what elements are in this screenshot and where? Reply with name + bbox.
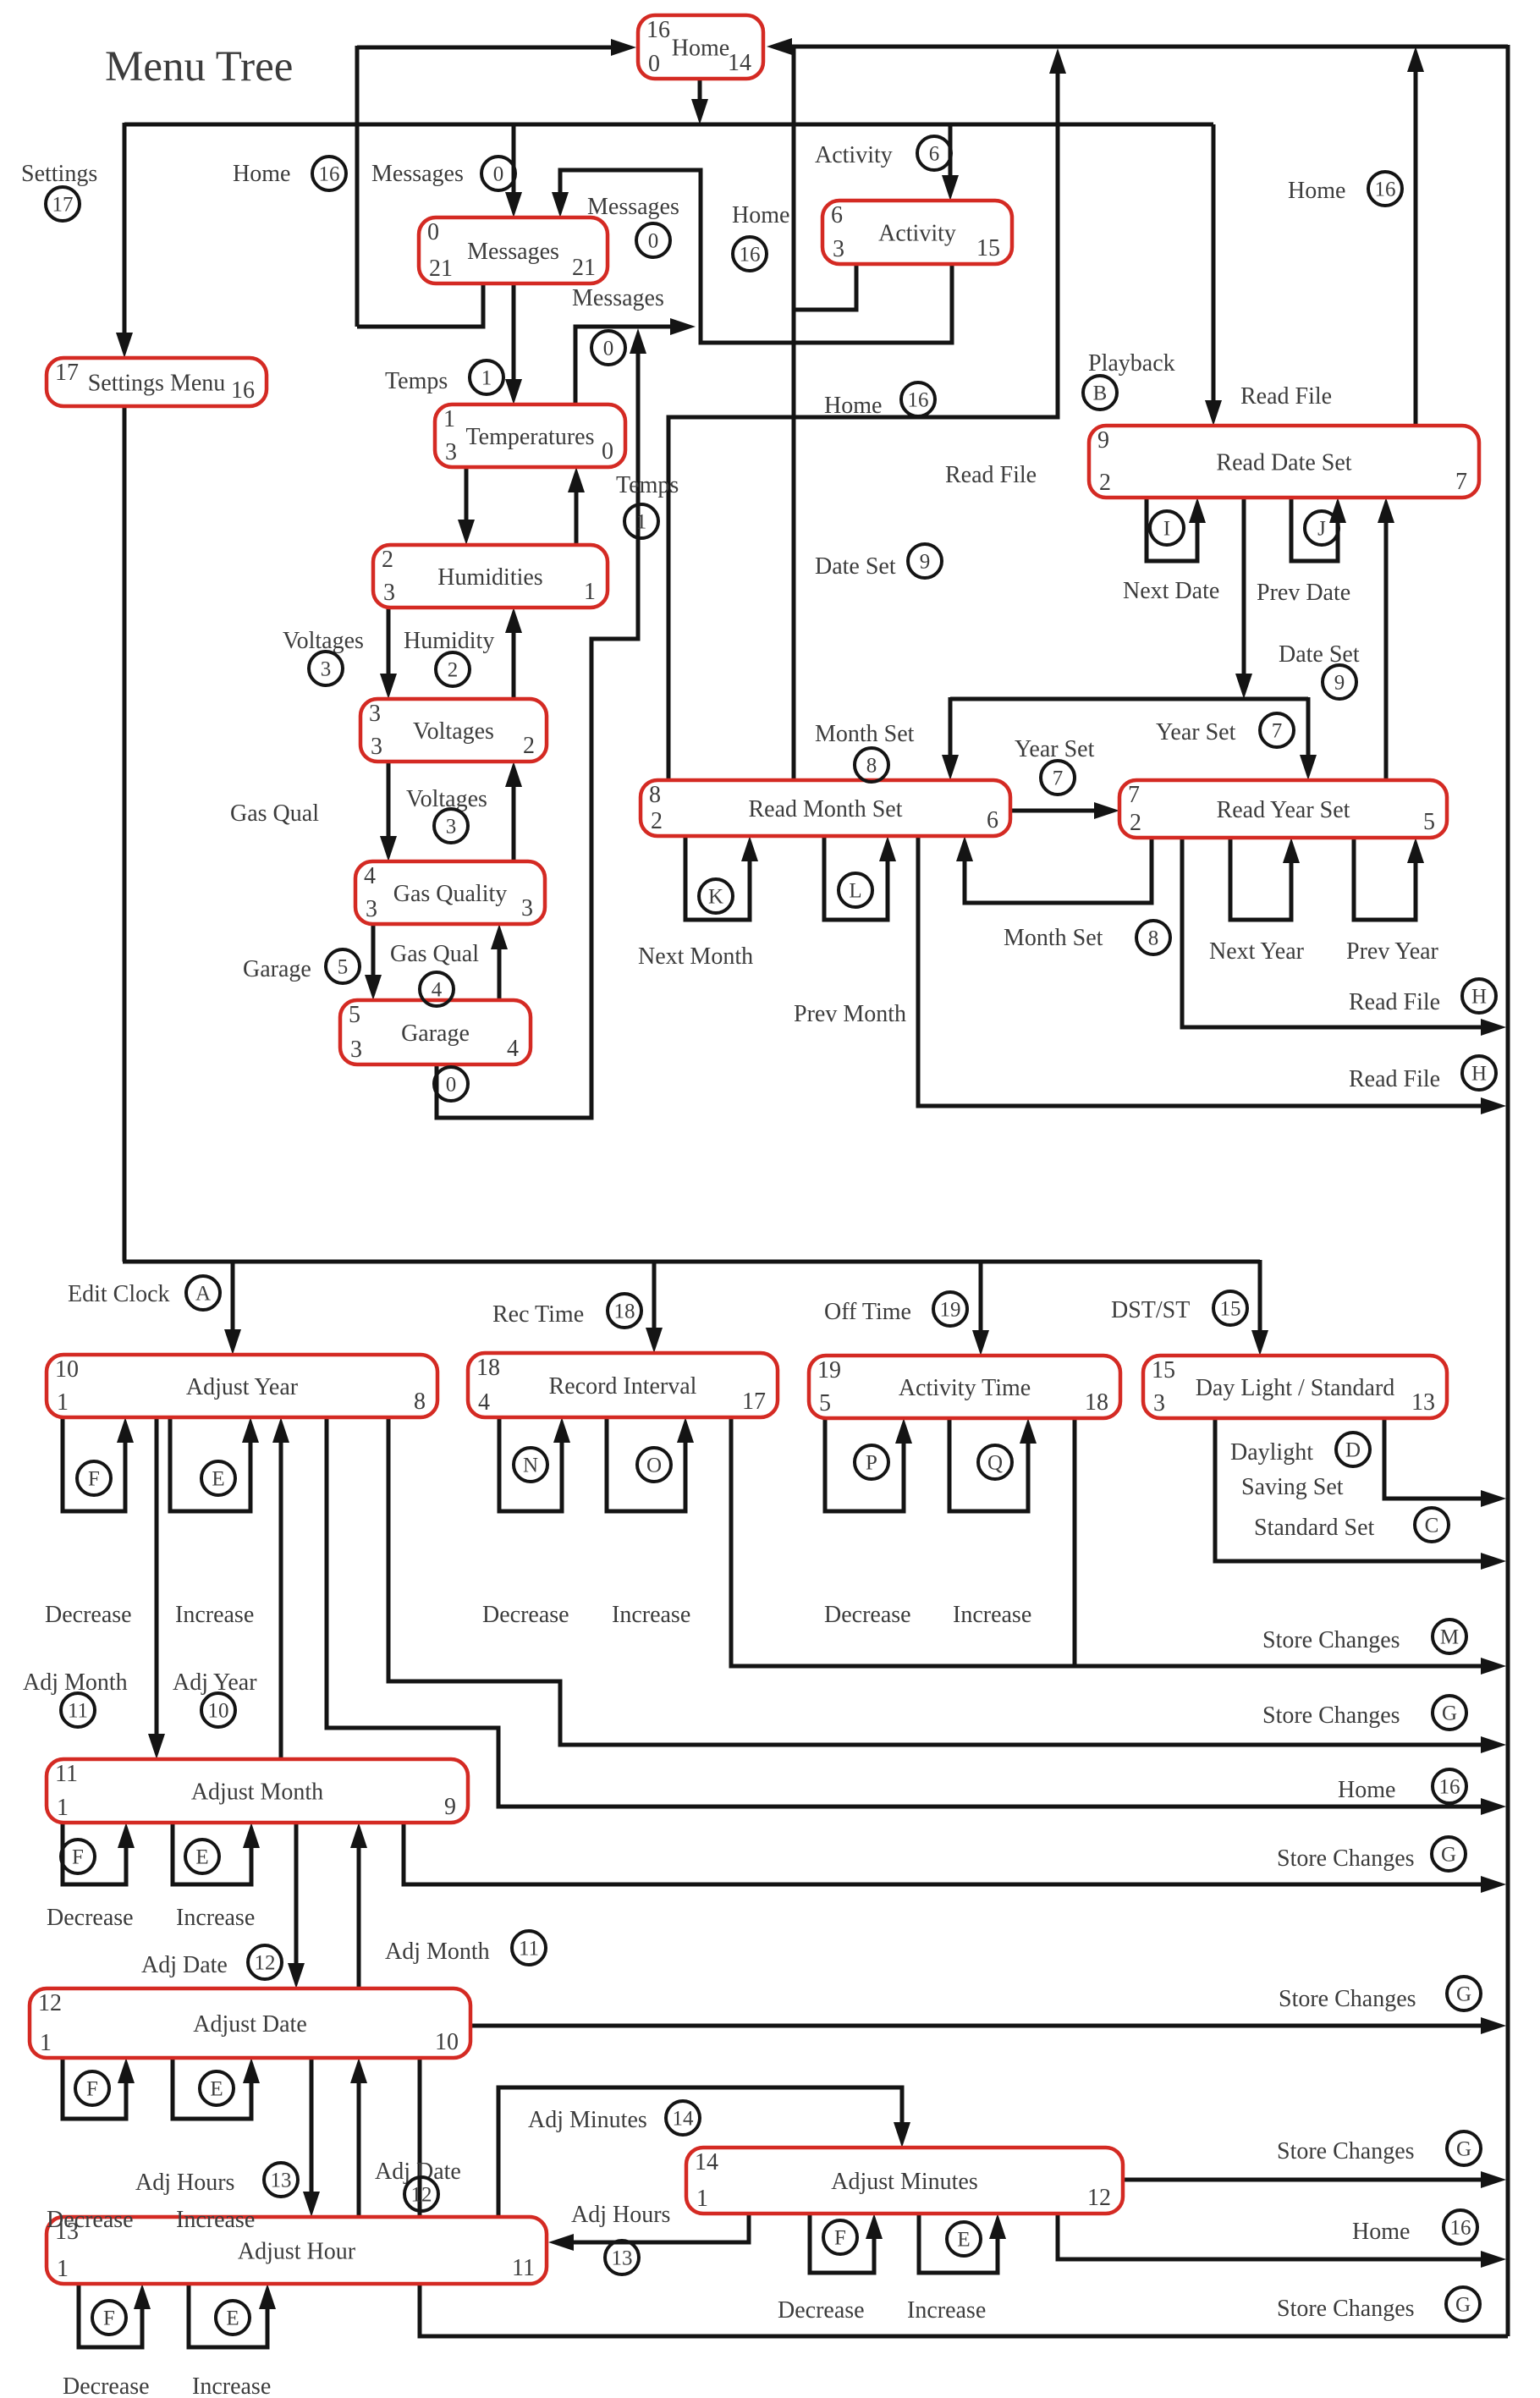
svg-text:Store Changes: Store Changes	[1262, 1627, 1400, 1653]
label: F circle adjust date	[75, 2071, 109, 2105]
svg-text:11: 11	[512, 2255, 535, 2281]
label: Adj Year 10	[173, 1669, 257, 1727]
svg-text:16: 16	[1375, 179, 1396, 201]
svg-text:17: 17	[742, 1389, 766, 1415]
label: Gas Qual 4	[390, 941, 479, 1006]
label: Date Set 9	[1279, 641, 1360, 699]
svg-text:3: 3	[383, 580, 395, 606]
wire: activity time Q loop	[949, 1418, 1037, 1511]
state box: Adjust Date	[30, 1988, 470, 2058]
label: E circle adjust date	[200, 2071, 234, 2105]
svg-text:Q: Q	[987, 1452, 1003, 1475]
svg-text:Adj Date: Adj Date	[375, 2159, 461, 2185]
wire: right edge vertical x1782	[1506, 45, 1510, 2336]
svg-text:Read File: Read File	[945, 462, 1037, 488]
label: Garage 0 exit	[434, 1067, 468, 1101]
wire: record interval O loop	[607, 1417, 694, 1511]
wire: store changes M line	[731, 1417, 1506, 1675]
wire: read date set drop x1434	[1205, 124, 1222, 426]
wire: adj hours return into adjust hour	[548, 2214, 749, 2251]
svg-text:12: 12	[38, 1990, 62, 2016]
svg-text:8: 8	[414, 1389, 426, 1415]
svg-text:A: A	[195, 1283, 211, 1306]
label: I circle	[1150, 511, 1184, 545]
svg-text:10: 10	[55, 1356, 79, 1383]
state box: Home	[638, 15, 763, 79]
svg-text:E: E	[226, 2307, 239, 2330]
svg-text:16: 16	[908, 389, 929, 412]
svg-text:0: 0	[602, 438, 613, 465]
wire: adj hours drop x368	[303, 2058, 320, 2217]
state box: Read Date Set	[1089, 426, 1479, 498]
state box: Record Interval	[468, 1353, 778, 1417]
label: Read File left of RDS	[945, 462, 1037, 488]
svg-text:N: N	[523, 1455, 538, 1477]
wire: adjust year E loop	[170, 1417, 259, 1511]
label: Store Changes G5	[1277, 2287, 1480, 2322]
svg-text:F: F	[103, 2307, 115, 2330]
svg-text:9: 9	[1097, 427, 1109, 454]
label: Daylight D	[1230, 1433, 1370, 1466]
svg-text:5: 5	[349, 1002, 360, 1028]
wire: store changes G staircase from adjust year	[388, 1417, 1506, 1753]
wire: year set arrow into RYS	[1300, 697, 1317, 780]
svg-text:Home: Home	[1352, 2219, 1410, 2245]
wire: record interval drop x773	[646, 1262, 663, 1353]
svg-text:Adj Hours: Adj Hours	[135, 2170, 234, 2196]
svg-text:Menu Tree: Menu Tree	[105, 43, 293, 91]
svg-text:Messages: Messages	[467, 239, 559, 265]
state box: Adjust Minutes	[686, 2148, 1123, 2214]
svg-text:Settings: Settings	[21, 161, 97, 187]
svg-text:1: 1	[40, 2030, 52, 2056]
svg-text:14: 14	[673, 2108, 695, 2131]
svg-text:Humidities: Humidities	[437, 564, 542, 591]
svg-text:4: 4	[364, 863, 376, 889]
wire: home right line y55	[767, 38, 1508, 55]
wire: store changes G2 from adjust month	[404, 1823, 1506, 1893]
label: Month Set 8 return	[1004, 921, 1170, 954]
svg-text:P: P	[866, 1452, 877, 1475]
svg-text:G: G	[1456, 2138, 1471, 2161]
svg-text:Month Set: Month Set	[1004, 925, 1103, 951]
state box: Activity	[822, 201, 1012, 264]
svg-text:14: 14	[695, 2149, 718, 2175]
svg-text:3: 3	[321, 658, 332, 681]
wire: voltages to gasquality down x459	[380, 762, 397, 861]
svg-text:1: 1	[57, 2256, 69, 2282]
label: Home 16 right side	[1338, 1769, 1466, 1803]
label: Prev Month	[794, 1001, 906, 1027]
label: Adj Minutes 14	[528, 2101, 700, 2135]
svg-text:Prev Date: Prev Date	[1257, 580, 1350, 606]
label: F circle adjust month	[61, 1840, 95, 1873]
svg-text:16: 16	[231, 377, 255, 404]
svg-text:Next Month: Next Month	[638, 943, 753, 970]
svg-text:Adjust Month: Adjust Month	[191, 1779, 323, 1805]
svg-text:13: 13	[612, 2247, 633, 2270]
svg-text:J: J	[1317, 518, 1326, 541]
label: Home 16 near activity	[732, 202, 789, 271]
wire: garage 0 return riser x754	[437, 328, 646, 1118]
state box: Read Month Set	[641, 780, 1010, 836]
svg-text:Increase: Increase	[612, 1602, 690, 1628]
label: Increase adjust year	[175, 1602, 254, 1628]
label: Adj Month 11 lower	[385, 1931, 546, 1965]
svg-text:Messages: Messages	[572, 285, 664, 311]
svg-text:3: 3	[521, 895, 533, 921]
svg-text:11: 11	[68, 1700, 88, 1723]
svg-text:Home: Home	[732, 202, 789, 228]
svg-text:0: 0	[648, 51, 660, 77]
svg-text:7: 7	[1053, 767, 1064, 790]
wire: edit clock bus y1491	[123, 1260, 1260, 1264]
wire: messages to temperatures drop x607	[505, 283, 522, 404]
svg-text:3: 3	[371, 734, 382, 760]
wire: messages drop x607	[505, 124, 522, 217]
wire: home bottom drop x827	[691, 79, 708, 124]
state box: Adjust Year	[47, 1355, 437, 1417]
svg-text:1: 1	[636, 511, 647, 534]
svg-text:B: B	[1093, 382, 1108, 405]
svg-text:8: 8	[1148, 927, 1159, 950]
label: Increase adjust date	[176, 2207, 255, 2233]
svg-text:Home: Home	[1338, 1777, 1395, 1803]
svg-text:Decrease: Decrease	[47, 1905, 134, 1931]
svg-text:Read File: Read File	[1349, 1066, 1440, 1092]
svg-text:Adjust Year: Adjust Year	[186, 1374, 299, 1400]
svg-text:6: 6	[831, 202, 843, 228]
label: Messages 0 top	[371, 157, 515, 190]
label: Standard Set C	[1254, 1508, 1449, 1542]
wire: adjust hour E loop	[189, 2284, 276, 2347]
svg-text:Home: Home	[233, 161, 290, 187]
svg-text:Record Interval: Record Interval	[549, 1373, 697, 1400]
svg-text:Activity Time: Activity Time	[899, 1375, 1031, 1401]
wire: garage to gasquality up x590	[491, 924, 508, 1000]
svg-text:Year Set: Year Set	[1015, 736, 1095, 762]
svg-text:Home: Home	[824, 393, 882, 419]
wire: read month to year set y958	[1010, 802, 1119, 819]
svg-text:2: 2	[448, 659, 459, 682]
wire: adjust month F loop	[63, 1823, 135, 1884]
svg-text:Home: Home	[672, 35, 729, 61]
svg-text:Store Changes: Store Changes	[1277, 2296, 1415, 2322]
wire: humidities to temperatures up x681	[568, 467, 585, 547]
label: Next Month	[638, 943, 753, 970]
svg-text:0: 0	[493, 163, 504, 186]
svg-text:Messages: Messages	[371, 161, 464, 187]
svg-text:F: F	[88, 1468, 100, 1491]
svg-text:E: E	[212, 1468, 224, 1491]
label: Edit Clock A	[68, 1276, 220, 1310]
svg-text:7: 7	[1128, 782, 1140, 808]
svg-text:2: 2	[651, 808, 663, 834]
svg-text:E: E	[210, 2078, 223, 2101]
svg-text:8: 8	[866, 755, 877, 778]
wire: home16 return y493 (Read Month Set)	[668, 48, 1066, 780]
state box: Adjust Month	[47, 1759, 468, 1823]
label: E circle adjust minutes	[947, 2222, 981, 2256]
svg-text:10: 10	[435, 2029, 459, 2055]
svg-text:Year Set: Year Set	[1156, 719, 1236, 745]
state box: Activity Time	[809, 1356, 1120, 1418]
label: Month Set 8 above RMS	[815, 721, 915, 782]
svg-text:3: 3	[445, 439, 457, 465]
wire: store changes G4 from adjust minutes	[1123, 2171, 1506, 2188]
svg-text:3: 3	[833, 236, 844, 262]
svg-text:Read Date Set: Read Date Set	[1216, 449, 1351, 476]
svg-text:18: 18	[476, 1355, 500, 1381]
svg-text:19: 19	[940, 1299, 961, 1322]
label: Settings 17	[21, 161, 97, 221]
svg-text:Increase: Increase	[175, 1602, 254, 1628]
wire: vertical x422 (Messages 21 to Home line)	[355, 46, 360, 327]
svg-text:2: 2	[1130, 810, 1141, 836]
svg-text:Decrease: Decrease	[824, 1602, 911, 1628]
label: E circle adjust month	[185, 1840, 219, 1873]
label: Next Year	[1209, 938, 1305, 965]
svg-text:12: 12	[255, 1952, 276, 1975]
wire: K loop (next month)	[685, 836, 758, 920]
svg-text:D: D	[1345, 1439, 1361, 1462]
svg-text:16: 16	[1439, 1776, 1460, 1799]
svg-text:17: 17	[55, 360, 79, 386]
label: Decrease adjust year	[45, 1602, 132, 1628]
state box: Read Year Set	[1119, 780, 1447, 838]
svg-text:Day Light / Standard: Day Light / Standard	[1196, 1375, 1395, 1401]
svg-text:12: 12	[411, 2184, 432, 2207]
svg-text:18: 18	[614, 1301, 635, 1323]
label: Humidity 2	[404, 628, 494, 686]
svg-text:19: 19	[817, 1357, 841, 1383]
svg-text:E: E	[957, 2229, 970, 2252]
label: F circle adjust year	[77, 1461, 111, 1495]
wire: read file H2 from RMS	[918, 836, 1506, 1114]
label: Playback B	[1083, 350, 1175, 410]
svg-text:Store Changes: Store Changes	[1279, 1986, 1416, 2012]
svg-text:Store Changes: Store Changes	[1277, 2138, 1415, 2164]
wire: activity time drop x1159	[972, 1262, 989, 1356]
label: F circle adjust minutes	[823, 2220, 857, 2254]
label: Garage 5	[243, 949, 360, 983]
svg-text:Next Date: Next Date	[1123, 578, 1219, 604]
svg-text:7: 7	[1272, 720, 1283, 743]
svg-text:F: F	[72, 1846, 84, 1869]
label: Store Changes G1	[1262, 1696, 1466, 1730]
wire: adjust hour F loop	[79, 2284, 151, 2347]
svg-text:5: 5	[338, 956, 349, 979]
label: K circle	[699, 879, 733, 913]
label: Store Changes G2	[1277, 1837, 1466, 1872]
svg-text:Humidity: Humidity	[404, 628, 494, 654]
wire: settings menu long drop x147	[123, 406, 127, 1262]
svg-text:3: 3	[350, 1037, 362, 1063]
svg-text:Next Year: Next Year	[1209, 938, 1305, 965]
svg-text:Increase: Increase	[907, 2297, 986, 2324]
svg-text:C: C	[1425, 1515, 1439, 1537]
wire: I loop (next date)	[1147, 498, 1206, 561]
state box: Adjust Hour	[47, 2217, 547, 2284]
wire: store changes G3 from adjust date	[470, 2017, 1506, 2034]
label: Adj Date 12	[141, 1945, 282, 1979]
label: Home 16 top-left	[233, 157, 346, 190]
wire: month/year set bus y826	[950, 697, 1308, 701]
svg-text:Store Changes: Store Changes	[1262, 1702, 1400, 1729]
label: Increase record interval	[612, 1602, 690, 1628]
svg-text:14: 14	[728, 50, 751, 76]
label: Temps 1 left	[385, 360, 503, 394]
svg-text:Increase: Increase	[176, 1905, 255, 1931]
label: Temps 1 right	[616, 472, 679, 538]
label: Increase adjust hour	[192, 2373, 271, 2398]
svg-text:8: 8	[649, 782, 661, 808]
state box: Voltages	[360, 699, 547, 762]
svg-text:Adjust Hour: Adjust Hour	[238, 2238, 356, 2264]
svg-text:Settings Menu: Settings Menu	[88, 370, 226, 396]
svg-text:16: 16	[1450, 2217, 1471, 2240]
wire: adjust minutes F loop	[810, 2214, 883, 2273]
wire: gasquality to garage down x441	[365, 924, 382, 1000]
svg-text:Temps: Temps	[616, 472, 679, 498]
svg-text:9: 9	[920, 551, 931, 574]
wire: main bus y147	[124, 123, 1213, 127]
svg-text:G: G	[1455, 2294, 1471, 2317]
wire: month set arrow into RMS	[942, 697, 959, 780]
svg-text:Decrease: Decrease	[45, 1602, 132, 1628]
wire: adjust date F loop	[63, 2058, 135, 2119]
svg-text:F: F	[86, 2078, 98, 2101]
svg-text:5: 5	[819, 1390, 831, 1416]
svg-text:Gas Qual: Gas Qual	[390, 941, 479, 967]
svg-text:Month Set: Month Set	[815, 721, 915, 747]
svg-text:Adjust Minutes: Adjust Minutes	[831, 2169, 977, 2195]
svg-text:Off Time: Off Time	[824, 1299, 911, 1325]
svg-text:2: 2	[523, 733, 535, 759]
label: Adj Hours 13 return	[571, 2202, 670, 2274]
wire: standard set C line	[1215, 1418, 1506, 1570]
label: Year Set 7 right	[1156, 713, 1294, 747]
svg-text:12: 12	[1087, 2185, 1111, 2211]
svg-text:15: 15	[1152, 1357, 1175, 1383]
wire: adj minutes wire from adjust hour	[498, 2087, 910, 2217]
svg-text:4: 4	[507, 1036, 519, 1062]
svg-text:0: 0	[648, 230, 659, 253]
svg-text:1: 1	[57, 1389, 69, 1416]
svg-text:3: 3	[446, 816, 457, 839]
svg-text:Date Set: Date Set	[1279, 641, 1360, 668]
svg-text:Increase: Increase	[192, 2373, 271, 2398]
label: P circle	[855, 1445, 888, 1479]
label: Decrease record interval	[482, 1602, 569, 1628]
svg-text:15: 15	[976, 235, 1000, 261]
label: Increase adjust month	[176, 1905, 255, 1931]
label: Year Set 7 mid	[1015, 736, 1095, 795]
svg-text:Adj Hours: Adj Hours	[571, 2202, 670, 2228]
svg-text:9: 9	[444, 1794, 456, 1820]
svg-text:Temperatures: Temperatures	[466, 424, 595, 450]
svg-text:Gas Qual: Gas Qual	[230, 800, 319, 827]
svg-text:Rec Time: Rec Time	[492, 1301, 584, 1328]
wire: activity drop x1123	[942, 124, 959, 201]
svg-text:O: O	[646, 1455, 662, 1477]
label: Messages 0 return line	[572, 285, 664, 365]
svg-text:Read Year Set: Read Year Set	[1217, 797, 1350, 823]
wire: long vertical x938 (Date Set)	[792, 47, 796, 780]
label: Increase activity time	[953, 1602, 1031, 1628]
wire: messages return bracket	[552, 170, 952, 343]
svg-text:9: 9	[1334, 672, 1345, 695]
label: J circle	[1305, 511, 1339, 545]
label: Off Time 19	[824, 1292, 967, 1326]
svg-text:0: 0	[603, 338, 614, 360]
label: Gas Qual left	[230, 800, 319, 827]
svg-text:Adj Month: Adj Month	[385, 1939, 490, 1965]
label: Voltages 3 mid	[406, 786, 487, 843]
label: Adj Month 11	[23, 1669, 128, 1727]
label: L circle	[839, 873, 872, 907]
svg-text:13: 13	[1411, 1389, 1435, 1416]
wire: home16 line from adjust minutes	[1058, 2214, 1506, 2268]
label: Prev Year	[1346, 938, 1439, 965]
svg-text:F: F	[834, 2227, 846, 2250]
svg-text:G: G	[1442, 1702, 1457, 1725]
svg-text:3: 3	[1153, 1390, 1165, 1416]
wire: temperatures 0 return y386	[575, 318, 696, 404]
label: Decrease adjust date	[47, 2207, 134, 2233]
wire: settings drop x147	[116, 123, 133, 358]
state box: Gas Quality	[355, 861, 545, 924]
svg-text:6: 6	[929, 143, 940, 166]
wire: read date set home return x1673	[1407, 47, 1424, 426]
wire: month set 8 return	[956, 836, 1152, 903]
wire: adjust minutes E loop	[919, 2214, 1006, 2273]
wire: next year loop	[1230, 838, 1300, 920]
svg-text:Garage: Garage	[401, 1020, 470, 1047]
label: Voltages 3 left	[283, 628, 364, 685]
label: Decrease adjust hour	[63, 2373, 150, 2398]
svg-text:Read Month Set: Read Month Set	[749, 796, 903, 822]
svg-text:Decrease: Decrease	[778, 2297, 865, 2324]
label: Store Changes G3	[1279, 1977, 1481, 2012]
svg-text:3: 3	[369, 701, 381, 727]
svg-text:7: 7	[1455, 469, 1467, 495]
wire: store changes G5 bottom line	[420, 2058, 1508, 2336]
svg-text:15: 15	[1220, 1298, 1241, 1321]
wire: adj month drop x185	[148, 1417, 165, 1759]
svg-text:Edit Clock: Edit Clock	[68, 1281, 170, 1307]
svg-text:Adj Date: Adj Date	[141, 1952, 228, 1978]
svg-text:16: 16	[740, 244, 761, 267]
label: Messages 0 right of box	[587, 194, 679, 257]
label: Decrease adjust month	[47, 1905, 134, 1931]
label: Adj Hours 13	[135, 2163, 298, 2197]
wire: adj month up x424	[350, 1823, 367, 1988]
svg-text:13: 13	[271, 2170, 292, 2192]
svg-text:Activity: Activity	[815, 142, 893, 168]
label: Read File above RDS	[1240, 383, 1332, 410]
label: Saving Set	[1241, 1474, 1344, 1500]
svg-text:E: E	[195, 1846, 208, 1869]
wire: adjust month E loop	[173, 1823, 260, 1884]
label: Rec Time 18	[492, 1294, 641, 1328]
wire: adjust year drop x275	[224, 1262, 241, 1355]
svg-text:L: L	[849, 880, 861, 903]
state box: Garage	[340, 1000, 531, 1064]
svg-text:2: 2	[382, 547, 393, 573]
label: Next Date	[1123, 578, 1219, 604]
svg-text:1: 1	[696, 2186, 708, 2212]
